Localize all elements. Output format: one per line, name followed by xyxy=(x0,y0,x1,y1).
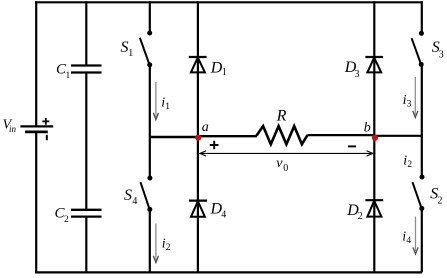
switch S1 bottom contact xyxy=(147,62,152,67)
switch S3 blade xyxy=(412,38,421,63)
svg-text:3: 3 xyxy=(439,49,444,60)
wire D1/D4 leg xyxy=(197,1,199,272)
battery Vin short plate xyxy=(25,130,48,133)
svg-text:3: 3 xyxy=(407,100,412,110)
svg-text:1: 1 xyxy=(66,71,71,81)
svg-text:1: 1 xyxy=(128,48,133,59)
wire right leg top xyxy=(421,1,423,33)
v0 arrow xyxy=(200,152,373,154)
svg-text:S: S xyxy=(124,187,132,204)
diode D3 xyxy=(365,56,383,58)
node a xyxy=(195,135,201,141)
svg-text:1: 1 xyxy=(165,102,170,112)
plus sign near a xyxy=(210,141,219,149)
svg-text:1: 1 xyxy=(222,67,227,78)
current arrow i4 xyxy=(415,217,417,252)
switch S3 top contact xyxy=(419,31,424,36)
switch S4 top contact xyxy=(147,176,152,181)
wire left source leg lower xyxy=(35,132,37,272)
svg-text:4: 4 xyxy=(221,210,226,221)
diode D2 xyxy=(365,199,383,201)
wire node b to right leg xyxy=(374,135,422,137)
wire top rail xyxy=(35,1,422,3)
svg-text:0: 0 xyxy=(283,163,288,174)
wire mid left segment xyxy=(151,136,199,138)
diode D4 xyxy=(189,200,207,202)
wire D3/D2 leg xyxy=(373,1,375,272)
wire capacitor leg middle xyxy=(85,73,87,210)
svg-text:b: b xyxy=(364,120,371,135)
svg-text:2: 2 xyxy=(438,195,443,206)
wire capacitor leg upper xyxy=(85,1,87,65)
wire S leg middle xyxy=(149,65,151,178)
current arrow i1 xyxy=(155,82,157,117)
current arrow i2 left xyxy=(155,224,157,260)
wire right leg middle xyxy=(421,64,423,177)
switch S1 blade xyxy=(140,38,149,64)
battery minus tick xyxy=(46,135,48,140)
wire left source leg upper xyxy=(35,1,37,126)
wire node a to resistor xyxy=(198,135,257,137)
wire right leg bottom xyxy=(421,208,423,272)
node b xyxy=(372,135,378,141)
svg-text:S: S xyxy=(121,39,129,56)
switch S4 bottom contact xyxy=(147,207,152,212)
switch S3 bottom contact xyxy=(419,62,424,67)
svg-text:2: 2 xyxy=(166,243,171,253)
wire resistor to node b xyxy=(308,134,375,136)
svg-text:R: R xyxy=(276,107,287,124)
wire capacitor leg lower xyxy=(85,217,87,273)
capacitor C2 xyxy=(71,210,102,217)
svg-text:in: in xyxy=(9,124,17,134)
switch S2 top contact xyxy=(420,175,425,180)
svg-text:2: 2 xyxy=(358,211,363,222)
switch S1 top contact xyxy=(147,31,152,36)
svg-text:a: a xyxy=(202,120,209,135)
minus sign near b xyxy=(348,145,356,147)
svg-text:4: 4 xyxy=(406,236,411,246)
svg-text:2: 2 xyxy=(64,215,69,225)
current arrow i3 xyxy=(414,77,416,115)
switch S4 blade xyxy=(141,182,150,208)
wire S leg bottom xyxy=(149,209,151,272)
capacitor C1 xyxy=(71,66,102,73)
diode D1 xyxy=(189,56,207,58)
battery Vin long plate xyxy=(20,125,53,127)
svg-text:v: v xyxy=(276,156,283,171)
battery plus sign xyxy=(42,118,49,125)
wire bottom rail xyxy=(35,271,422,273)
svg-text:3: 3 xyxy=(355,69,360,80)
svg-text:2: 2 xyxy=(407,160,412,170)
wire S1/S4 leg top xyxy=(149,1,151,33)
switch S2 bottom contact xyxy=(419,206,424,211)
svg-text:D: D xyxy=(210,59,223,76)
resistor R xyxy=(257,126,308,144)
switch S2 blade xyxy=(413,182,422,208)
svg-text:4: 4 xyxy=(132,196,137,207)
